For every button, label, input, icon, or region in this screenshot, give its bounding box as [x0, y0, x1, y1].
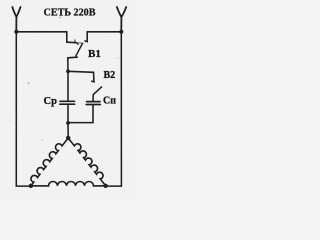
switch B1 right fixed contact drop — [85, 32, 87, 42]
scan noise overlay — [0, 0, 1, 1]
terminal right (antenna Y) — [117, 7, 126, 32]
switch B1 contact tick — [74, 40, 76, 43]
wire: Cp bottom lead — [67, 104, 69, 122]
switch B1 bottom contact bar — [68, 56, 77, 59]
wire: lead from node A to Cp — [67, 71, 69, 101]
wire: lead to winding apex — [67, 123, 69, 138]
svg-text:В1: В1 — [88, 48, 101, 60]
winding: right side coil — [68, 138, 105, 186]
switch B2 upper contact lead — [92, 72, 94, 82]
capacitor Cn (start capacitor) — [86, 102, 100, 105]
wire: right rail down and to motor — [106, 32, 122, 186]
svg-text:В2: В2 — [104, 70, 116, 81]
node B: capacitor joint dot — [66, 121, 70, 125]
node A: junction dot (B1 / capacitors / B2) — [66, 69, 70, 73]
switch B1 bottom lead — [67, 58, 69, 72]
wire: feed to B2 — [68, 71, 94, 72]
switch B1 top contact bar — [67, 41, 77, 44]
wire: left rail down and to motor — [16, 32, 31, 186]
wire: top right segment — [87, 31, 121, 33]
switch B1 contact bar tail — [77, 42, 84, 45]
node: winding bottom-left vertex dot — [29, 184, 33, 188]
wire: top left segment — [16, 31, 67, 33]
node: right terminal junction dot — [119, 30, 123, 34]
switch B1 upper lead — [66, 32, 68, 42]
switch B1 blade — [76, 44, 82, 56]
capacitor Cp (run capacitor) — [60, 101, 75, 104]
node: left terminal junction dot — [14, 30, 18, 34]
switch B2 blade — [93, 87, 101, 95]
switch B1 contact hook — [77, 43, 79, 45]
svg-text:СЕТЬ 220В: СЕТЬ 220В — [44, 6, 97, 18]
terminal left (antenna Y) — [12, 7, 20, 32]
wire: Cn bottom lead and joint — [68, 105, 93, 123]
winding: left side coil — [31, 138, 68, 186]
winding: bottom coil — [31, 181, 106, 185]
svg-text:Сп: Сп — [103, 96, 116, 107]
svg-text:Ср: Ср — [44, 96, 58, 107]
node: winding bottom-right vertex dot — [103, 184, 107, 188]
switch B2 lead to capacitor — [92, 95, 94, 102]
node: winding apex dot — [66, 136, 70, 140]
